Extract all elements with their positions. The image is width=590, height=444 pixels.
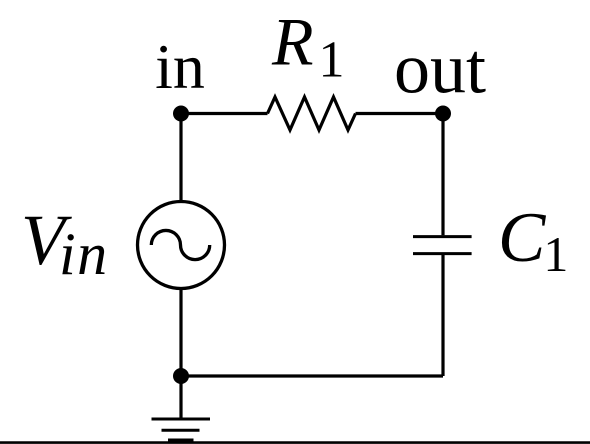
voltage source V_in circle xyxy=(138,202,225,289)
svg-text:C1: C1 xyxy=(498,199,568,282)
capacitor C1 bottom plate xyxy=(413,252,472,255)
bottom frame line xyxy=(0,441,590,444)
ground top bar xyxy=(152,418,211,421)
svg-text:Vin: Vin xyxy=(21,200,109,287)
node in junction dot xyxy=(173,106,189,122)
wire: node in down to source top xyxy=(179,114,182,202)
bottom junction node dot xyxy=(173,368,189,384)
resistor R1 zigzag xyxy=(268,97,356,130)
node out junction dot xyxy=(435,106,451,122)
ground bottom bar xyxy=(168,439,194,443)
svg-text:in: in xyxy=(155,31,205,102)
wire: bottom rail xyxy=(181,374,443,377)
ground middle bar xyxy=(162,429,200,432)
wire: node in to resistor left xyxy=(181,112,268,115)
wire: resistor right to node out xyxy=(356,112,444,115)
wire: source bottom to bottom node xyxy=(179,289,182,377)
svg-text:out: out xyxy=(394,29,486,109)
wire: ground stem xyxy=(179,376,182,419)
svg-text:R1: R1 xyxy=(271,4,345,89)
wire: capacitor bottom plate down to bottom rail xyxy=(441,255,444,376)
capacitor C1 top plate xyxy=(413,235,472,238)
voltage source sine symbol xyxy=(151,230,209,259)
wire: node out down to capacitor top plate xyxy=(441,114,444,236)
